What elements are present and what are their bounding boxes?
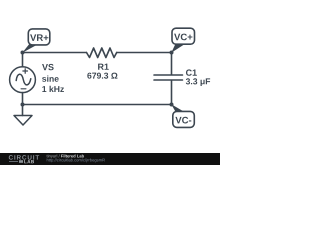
wire right vertical upper — [171, 53, 173, 75]
flag VC+ — [171, 28, 194, 53]
node top-right junction — [170, 51, 174, 55]
flagtext VR+ — [30, 34, 48, 41]
logo equals mark — [19, 160, 23, 163]
label C1 — [186, 69, 197, 75]
resistor R1 — [87, 48, 117, 58]
label R1 value — [87, 73, 117, 79]
node bottom-right junction — [170, 103, 174, 107]
logo CIRCUIT — [9, 155, 39, 160]
node bottom-left junction — [21, 103, 25, 107]
label C1 value — [186, 78, 210, 86]
flagtext VC+ — [174, 34, 192, 41]
caption user — [47, 154, 60, 158]
wire VS top lead — [22, 53, 24, 67]
logo underline dash — [9, 160, 18, 163]
logo LAB — [24, 160, 34, 163]
wire VS bottom lead — [22, 93, 24, 105]
wire bottom horizontal — [23, 104, 172, 106]
capacitor C1 — [154, 75, 183, 80]
wire right vertical lower — [171, 81, 173, 105]
label VS — [42, 64, 54, 70]
voltage source VS — [10, 67, 36, 93]
node top-left junction — [21, 51, 25, 55]
label R1 — [98, 64, 109, 70]
flag VR+ — [22, 29, 50, 53]
flag VC- — [171, 104, 194, 127]
label 1kHz — [42, 86, 64, 92]
ground — [14, 105, 32, 126]
label sine — [42, 75, 59, 81]
footer bar — [0, 153, 220, 165]
wire top-left horizontal — [23, 52, 87, 54]
caption url — [47, 158, 105, 162]
wire top-right horizontal — [117, 52, 172, 54]
caption title — [61, 154, 84, 157]
flagtext VC- — [175, 117, 191, 124]
